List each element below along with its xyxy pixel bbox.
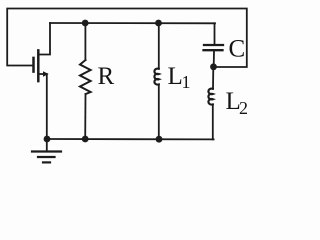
wire: from C bottom plate down to junction node — [213, 51, 215, 67]
wire: top rail from drain across to capacitor branch — [50, 22, 215, 24]
wire: L1 branch lower segment — [158, 84, 160, 139]
svg-text:1: 1 — [182, 72, 191, 92]
resistor R zigzag — [80, 60, 91, 94]
wire: R branch upper segment — [84, 23, 86, 60]
wire: outer feedback loop from gate up over the top and down right side to node between C and L2 — [7, 9, 247, 68]
wire: from junction node down to L2 coil — [212, 67, 214, 89]
inductor L2 coil — [208, 89, 212, 105]
wire: bottom rail — [47, 138, 214, 140]
wire: capacitor branch from top rail down to top plate — [214, 23, 216, 44]
node: junction of L1 at top rail — [155, 20, 162, 27]
wire: source lead down to bottom rail — [39, 74, 46, 139]
ground symbol bar 3 — [43, 161, 50, 163]
svg-text:L: L — [168, 63, 183, 90]
svg-text:C: C — [229, 36, 246, 63]
wire: L1 branch upper segment — [158, 23, 160, 69]
transistor Q1 (FET) gate bar — [32, 58, 35, 72]
capacitor C bottom plate — [204, 49, 223, 51]
svg-text:2: 2 — [239, 98, 248, 118]
wire: R branch lower segment — [84, 94, 86, 139]
ground symbol bar 2 — [38, 156, 55, 158]
wire: drain lead up to top rail — [39, 23, 50, 55]
ground symbol stub — [46, 139, 48, 150]
transistor Q1 (FET) channel bar — [37, 50, 40, 81]
node: junction of L1 at bottom rail — [156, 136, 163, 143]
svg-text:R: R — [98, 63, 115, 90]
capacitor C top plate — [204, 44, 223, 46]
inductor L1 coil — [154, 69, 158, 85]
wire: L2 lower segment down to bottom rail corner — [212, 104, 215, 139]
node: junction of R at bottom rail — [82, 136, 89, 143]
ground symbol bar 1 — [32, 150, 61, 152]
node: junction of R at top rail — [82, 20, 89, 27]
node: junction between C, L2 and feedback loop — [210, 63, 217, 70]
node: junction of source and ground on bottom rail — [44, 136, 51, 143]
transistor Q1 source arrowhead — [43, 71, 49, 76]
